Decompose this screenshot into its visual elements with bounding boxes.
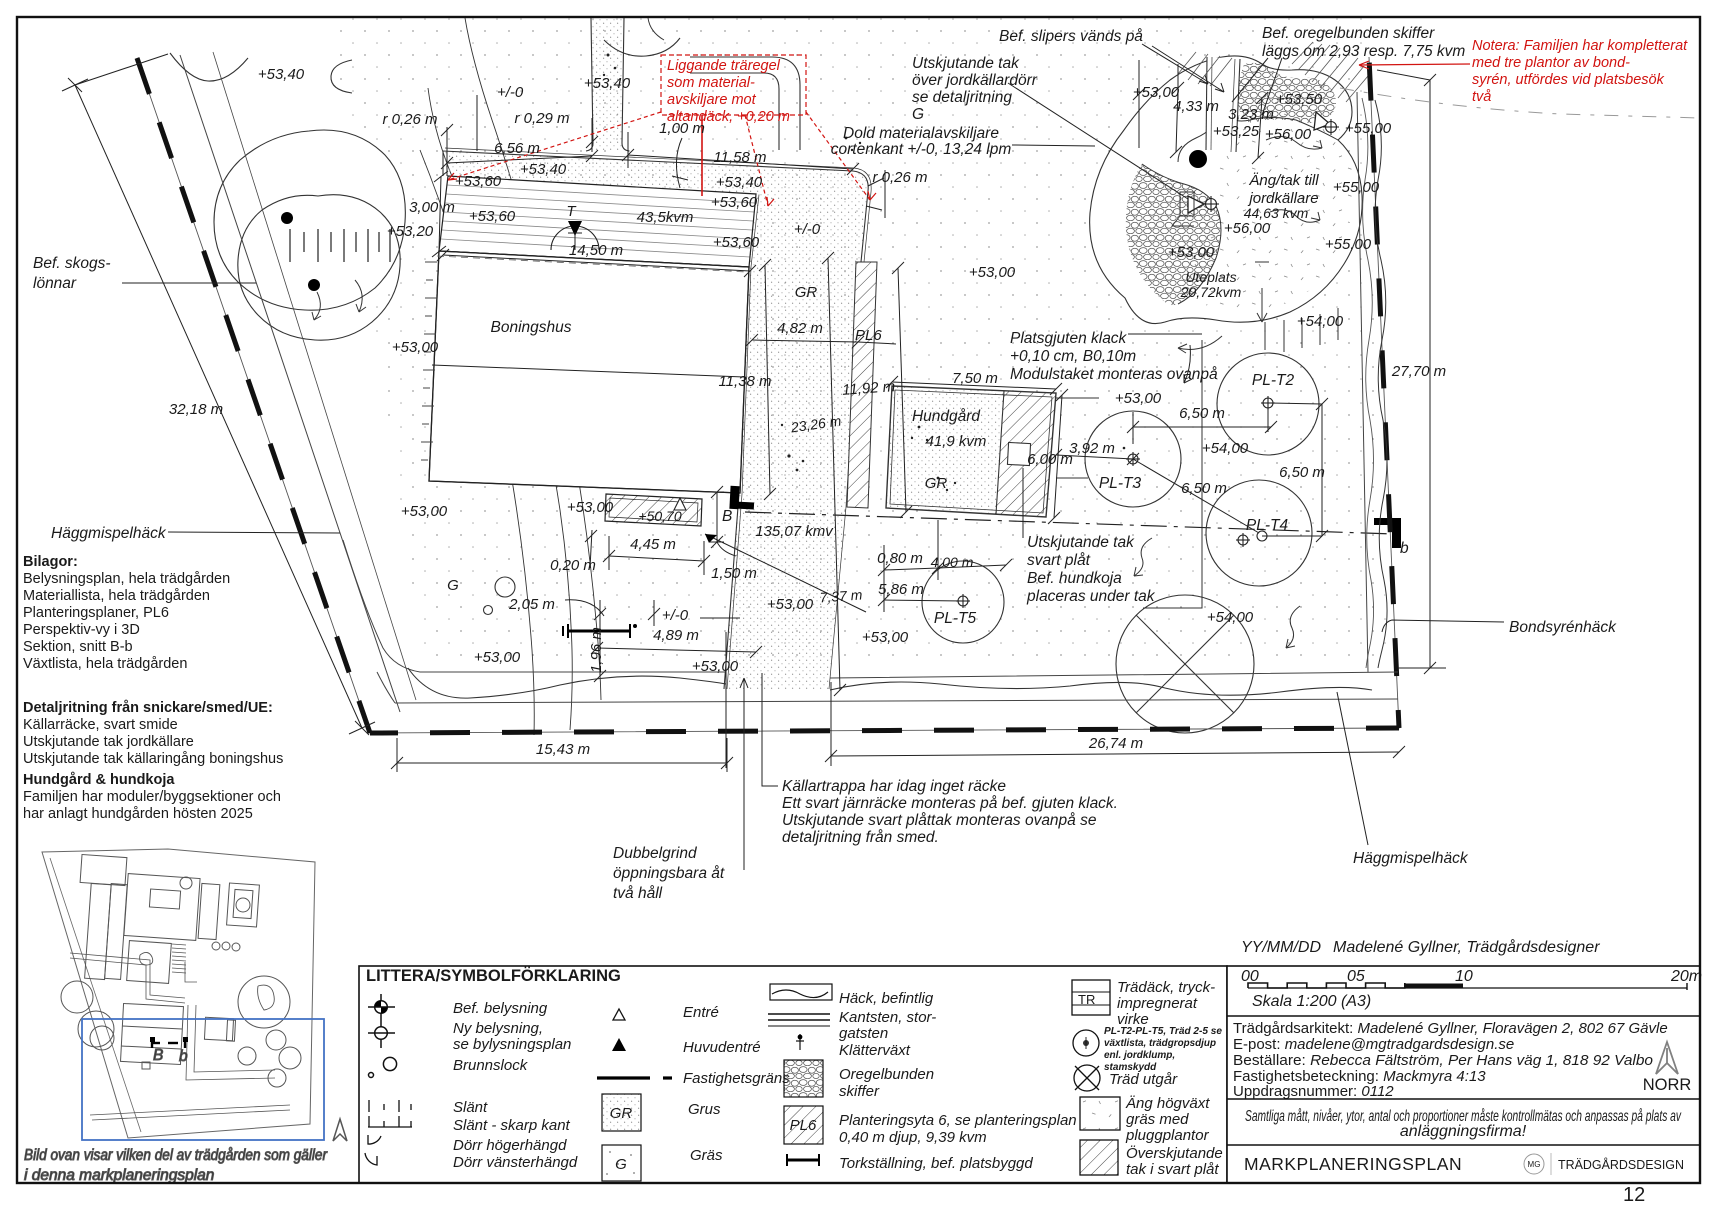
- property boundary thick dashes: right: [1369, 57, 1399, 728]
- svg-text:Klätterväxt: Klätterväxt: [839, 1042, 911, 1059]
- upper stone band: [1238, 63, 1336, 123]
- svg-text:två: två: [1472, 89, 1491, 105]
- svg-text:+53,00: +53,00: [969, 264, 1016, 281]
- svg-text:Hundgård: Hundgård: [912, 408, 981, 425]
- svg-text:4,00 m: 4,00 m: [931, 554, 974, 570]
- r 0,26 m right corner ticks: [868, 178, 884, 186]
- svg-text:7,37 m: 7,37 m: [819, 587, 863, 606]
- col4: [1072, 980, 1120, 1175]
- svg-text:Bild ovan visar vilken del av: Bild ovan visar vilken del av trädgården…: [24, 1147, 328, 1164]
- blue focus rectangle: [82, 1019, 324, 1140]
- svg-text:2,05 m: 2,05 m: [508, 596, 555, 613]
- wavy arrow right lawn: [1286, 606, 1300, 648]
- svg-text:Källartrappa har idag inget rä: Källartrappa har idag inget räcke: [782, 778, 1006, 795]
- svg-text:Träd utgår: Träd utgår: [1109, 1071, 1178, 1088]
- leader platsgjuten klack: [1128, 333, 1202, 335]
- svg-text:+53,00: +53,00: [401, 503, 448, 520]
- svg-text:+53,20: +53,20: [387, 223, 434, 240]
- svg-text:32,18 m: 32,18 m: [169, 401, 223, 418]
- svg-text:MG: MG: [1528, 1160, 1541, 1169]
- svg-text:PL-T2: PL-T2: [1252, 372, 1295, 389]
- svg-text:Bef. slipers vänds på: Bef. slipers vänds på: [999, 28, 1143, 45]
- leader utskjutande tak over jordkallardorr: [1008, 83, 1188, 199]
- svg-text:Slänt: Slänt: [453, 1099, 488, 1116]
- svg-text:G: G: [447, 577, 459, 594]
- door symbols: [368, 1135, 381, 1144]
- small trees bottom: [238, 1047, 256, 1065]
- svg-text:Trädgårdsarkitekt: Madelené Gy: Trädgårdsarkitekt: Madelené Gyllner, Flo…: [1233, 1020, 1668, 1037]
- scattered pebbles: [603, 54, 1133, 492]
- deck boards: [441, 185, 755, 257]
- slope ticks below mound: [1265, 308, 1338, 352]
- stair hatch strip: [172, 944, 186, 973]
- svg-text:två håll: två håll: [613, 885, 663, 902]
- svg-text:r 0,26 m: r 0,26 m: [872, 169, 927, 186]
- svg-text:Materiallista, hela trädgården: Materiallista, hela trädgården: [23, 588, 210, 604]
- svg-text:avskiljare mot: avskiljare mot: [667, 92, 757, 108]
- hedge lines parallel to left boundary: [180, 55, 400, 712]
- cellar entrance canopy (hatched): [605, 494, 702, 526]
- entre triangle at jordkallare door: [1188, 196, 1204, 213]
- svg-text:TR: TR: [1078, 992, 1095, 1007]
- leader kallartrappa: [762, 673, 778, 786]
- svg-text:6,00 m: 6,00 m: [1027, 451, 1073, 468]
- svg-text:E-post: madelene@mgtradgardsde: E-post: madelene@mgtradgardsdesign.se: [1233, 1036, 1514, 1053]
- brunnslock: [383, 1057, 396, 1070]
- svg-text:Bef. belysning: Bef. belysning: [453, 1000, 548, 1017]
- svg-text:läggs om 2,93 resp. 7,75 kvm: läggs om 2,93 resp. 7,75 kvm: [1262, 43, 1465, 60]
- dim 4,45 m below cellar: [609, 556, 704, 561]
- svg-text:enl. jordklump,: enl. jordklump,: [1104, 1050, 1175, 1061]
- svg-text:lönnar: lönnar: [33, 275, 77, 292]
- r 0,26 m tick top-left: [441, 124, 453, 136]
- canopy arcs at top edge: [170, 53, 248, 81]
- entrance triangle at cellar: [674, 498, 686, 510]
- svg-text:anläggningsfirma!: anläggningsfirma!: [1400, 1123, 1527, 1140]
- svg-text:6,50 m: 6,50 m: [1279, 464, 1325, 481]
- svg-text:Häck, befintlig: Häck, befintlig: [839, 990, 934, 1007]
- svg-text:20m: 20m: [1670, 968, 1702, 985]
- svg-text:se bylysningsplan: se bylysningsplan: [453, 1036, 571, 1053]
- svg-text:Bef. oregelbunden skiffer: Bef. oregelbunden skiffer: [1262, 25, 1435, 42]
- gravel path inset: [186, 1005, 275, 1080]
- lighting symbol at door: [1203, 196, 1219, 212]
- svg-text:+53,00: +53,00: [567, 499, 614, 516]
- svg-text:Dörr högerhängd: Dörr högerhängd: [453, 1137, 567, 1154]
- dim 3,23 m: [1258, 98, 1262, 158]
- svg-text:43,5kvm: 43,5kvm: [637, 209, 694, 226]
- curved arrow bottom left of mound: [1178, 336, 1222, 350]
- svg-text:öppningsbara åt: öppningsbara åt: [613, 865, 725, 882]
- leader haggmispelhack bottom right: [1337, 692, 1368, 845]
- svg-text:0,80 m: 0,80 m: [877, 550, 923, 567]
- svg-text:Belysningsplan, hela trädgårde: Belysningsplan, hela trädgården: [23, 571, 230, 587]
- svg-text:+53,60: +53,60: [455, 173, 502, 190]
- svg-text:som material-: som material-: [667, 75, 755, 91]
- buildings upper: [80, 854, 127, 885]
- svg-text:detaljritning från smed.: detaljritning från smed.: [782, 829, 939, 846]
- jordkallare mound white base: [1090, 56, 1363, 324]
- svg-text:0,20 m: 0,20 m: [550, 557, 596, 574]
- svg-text:över jordkällardörr: över jordkällardörr: [912, 72, 1038, 89]
- lower house: [121, 1003, 184, 1064]
- svg-text:Bef. skogs-: Bef. skogs-: [33, 255, 111, 272]
- svg-text:+56,00: +56,00: [1224, 220, 1271, 237]
- dims at PL-T5: 0,80 / 4,00 / 5,86: [884, 568, 938, 570]
- dim 7,50 m hundgard top: [892, 382, 1056, 389]
- diagonal leader to cellar stairs: [705, 534, 866, 612]
- title block frame: [1227, 966, 1700, 1183]
- red annotations: [448, 55, 1470, 206]
- svg-text:Entré: Entré: [683, 1004, 719, 1021]
- svg-text:se detaljritning: se detaljritning: [912, 89, 1012, 106]
- svg-text:Planteringsyta 6, se planterin: Planteringsyta 6, se planteringsplan: [839, 1112, 1077, 1129]
- slope tick row through canopy: [290, 229, 390, 262]
- platsgjuten klack edge: [1143, 340, 1202, 608]
- leader dold materialavskiljare: [1012, 145, 1095, 146]
- svg-text:skiffer: skiffer: [839, 1083, 880, 1100]
- dim 11,92 m vertical: [898, 268, 906, 512]
- leader haggmispelhack left: [168, 532, 340, 533]
- leader bef slipers: [1142, 44, 1208, 84]
- svg-text:Dörr vänsterhängd: Dörr vänsterhängd: [453, 1154, 578, 1171]
- svg-text:gatsten: gatsten: [839, 1025, 888, 1042]
- svg-text:Trädäck, tryck-: Trädäck, tryck-: [1117, 979, 1215, 996]
- svg-text:Beställare: Rebecca Fältström,: Beställare: Rebecca Fältström, Per Hans …: [1233, 1052, 1653, 1069]
- svg-text:pluggplantor: pluggplantor: [1125, 1127, 1210, 1144]
- svg-text:Bef. hundkoja: Bef. hundkoja: [1027, 570, 1122, 587]
- svg-text:G: G: [912, 106, 924, 123]
- svg-text:Platsgjuten klack: Platsgjuten klack: [1010, 330, 1128, 347]
- existing forest maples (bef. skogslonnar) canopies top-left: [214, 130, 405, 310]
- house Boningshus: [429, 251, 749, 493]
- leader bondsyrenhack: [1382, 620, 1504, 632]
- svg-text:i denna markplaneringsplan: i denna markplaneringsplan: [24, 1167, 214, 1184]
- svg-text:6,50 m: 6,50 m: [1181, 480, 1227, 497]
- walkway left end: [442, 151, 444, 176]
- dim 6,50 m T3-T2 horizontal: [1133, 426, 1271, 428]
- svg-text:Dubbelgrind: Dubbelgrind: [613, 845, 698, 862]
- svg-text:+53,40: +53,40: [520, 161, 567, 178]
- svg-text:Liggande träregel: Liggande träregel: [667, 58, 781, 74]
- hundgard enclosure: [886, 386, 1056, 517]
- right hedge fence line: [1357, 92, 1368, 672]
- svg-text:3,92 m: 3,92 m: [1069, 440, 1115, 457]
- faint dashed line exiting top right: [1340, 88, 1700, 118]
- main entrance arc + marker on deck: [551, 226, 599, 250]
- svg-text:r 0,26 m: r 0,26 m: [382, 111, 437, 128]
- svg-text:Äng högväxt: Äng högväxt: [1125, 1095, 1210, 1112]
- Bondsyren hedge wavy vertical: [1375, 100, 1387, 668]
- svg-text:Perspektiv-vy i 3D: Perspektiv-vy i 3D: [23, 622, 140, 638]
- garden sparse stipple field: [330, 18, 1388, 665]
- svg-text:Växtlista, hela trädgården: Växtlista, hela trädgården: [23, 656, 187, 672]
- svg-text:+54,00: +54,00: [1202, 440, 1249, 457]
- drooping branch arrows: [314, 292, 320, 320]
- svg-text:26,74 m: 26,74 m: [1088, 735, 1143, 752]
- dim 11,58 m walkway right: [628, 155, 853, 169]
- legend box: [359, 966, 1227, 1183]
- dim 4,82 m house to PL6: [752, 340, 858, 342]
- svg-text:+53,40: +53,40: [716, 174, 763, 191]
- +/-0 leader top-left: [476, 95, 478, 151]
- svg-text:Utskjutande tak: Utskjutande tak: [1027, 534, 1135, 551]
- svg-text:14,50 m: 14,50 m: [569, 242, 623, 259]
- svg-text:PL-T2-PL-T5, Träd 2-5 se: PL-T2-PL-T5, Träd 2-5 se: [1104, 1026, 1222, 1037]
- dim 3,00 m deck left: [439, 176, 441, 251]
- svg-text:+50,70: +50,70: [638, 508, 681, 524]
- slipers path vertical: [1206, 57, 1240, 152]
- svg-text:PL-T5: PL-T5: [934, 610, 977, 627]
- svg-text:5,86 m: 5,86 m: [878, 581, 924, 598]
- svg-text:4,89 m: 4,89 m: [653, 627, 699, 644]
- svg-text:har anlagt hundgården hösten 2: har anlagt hundgården hösten 2025: [23, 806, 253, 822]
- svg-text:PL6: PL6: [855, 327, 882, 344]
- svg-text:27,70 m: 27,70 m: [1391, 363, 1446, 380]
- section marker b (black flag): [1374, 518, 1401, 548]
- dim 4,33 m slipers: [1176, 88, 1178, 152]
- organic curves in left strip: [428, 88, 572, 730]
- svg-text:Boningshus: Boningshus: [490, 319, 571, 336]
- svg-text:impregnerat: impregnerat: [1117, 995, 1198, 1012]
- svg-text:Fastighetsgräns: Fastighetsgräns: [683, 1070, 790, 1087]
- hook path top right of deck: [690, 57, 800, 150]
- svg-text:Ett svart järnräcke monteras p: Ett svart järnräcke monteras på bef. gju…: [782, 795, 1118, 812]
- PL6 planting strip: [847, 262, 877, 508]
- svg-text:+53,00: +53,00: [692, 658, 739, 675]
- walkway and gravel strip GR (dense gravel fill): [443, 151, 868, 689]
- svg-text:Bondsyrénhäck: Bondsyrénhäck: [1509, 619, 1617, 636]
- middle rooms: [127, 941, 172, 984]
- svg-text:gräs med: gräs med: [1126, 1111, 1189, 1128]
- trees circles: [61, 981, 93, 1013]
- svg-text:44,63 kvm: 44,63 kvm: [1244, 205, 1309, 221]
- property boundary thick dashes: bottom: [370, 728, 1399, 733]
- svg-text:+53,60: +53,60: [711, 194, 758, 211]
- wavy arrows in meadow: [1266, 136, 1322, 149]
- svg-text:B: B: [153, 1047, 163, 1064]
- svg-text:7,50 m: 7,50 m: [952, 370, 998, 387]
- dim 14,50 m deck bottom: [443, 255, 750, 271]
- svg-text:1,50 m: 1,50 m: [711, 565, 757, 582]
- dim 26,74 m: [831, 752, 1399, 756]
- brunnslock circles lawn: [495, 577, 515, 597]
- svg-text:+56,00: +56,00: [1265, 126, 1312, 143]
- svg-text:Familjen har moduler/byggsekti: Familjen har moduler/byggsektioner och: [23, 789, 281, 805]
- svg-text:05: 05: [1347, 968, 1365, 985]
- dim 6,00 m hundgard right: [1054, 395, 1062, 518]
- dim 3,92 m PL-T3 left: [1056, 455, 1133, 459]
- svg-text:6,50 m: 6,50 m: [1179, 405, 1225, 422]
- north arrow: [1656, 1042, 1678, 1074]
- svg-text:+55,00: +55,00: [1325, 236, 1372, 253]
- svg-text:41,9 kvm: 41,9 kvm: [926, 433, 987, 450]
- section line B-b (dash-dot): [745, 512, 1393, 534]
- svg-text:+53,40: +53,40: [258, 66, 305, 83]
- svg-text:Uppdragsnummer: 0112: Uppdragsnummer: 0112: [1233, 1083, 1394, 1100]
- leader bef skogslonnar: [122, 282, 256, 284]
- svg-text:+/-0: +/-0: [497, 84, 524, 101]
- svg-text:+0,10 cm, B0,10m: +0,10 cm, B0,10m: [1010, 348, 1136, 365]
- svg-text:+53,25: +53,25: [1213, 123, 1260, 140]
- trunk dots: [281, 212, 293, 224]
- svg-text:12: 12: [1623, 1184, 1645, 1206]
- svg-text:NORR: NORR: [1643, 1076, 1692, 1094]
- svg-text:Utskjutande tak: Utskjutande tak: [912, 55, 1020, 72]
- svg-text:3,00 m: 3,00 m: [409, 199, 455, 216]
- bottom hedge lines inset: [90, 1105, 290, 1115]
- svg-text:Slänt - skarp kant: Slänt - skarp kant: [453, 1117, 571, 1134]
- property outline: [42, 849, 315, 1138]
- ny belysning: [375, 1027, 388, 1040]
- north gravel strip (vertical path at top): [591, 18, 624, 150]
- svg-text:+54,00: +54,00: [1207, 609, 1254, 626]
- svg-text:med tre plantor av bond-: med tre plantor av bond-: [1472, 55, 1630, 71]
- dim 1,96 m vertical: [599, 626, 601, 676]
- svg-text:+55,00: +55,00: [1333, 179, 1380, 196]
- svg-text:20,72kvm: 20,72kvm: [1180, 284, 1242, 300]
- svg-text:Utskjutande tak källaringång b: Utskjutande tak källaringång boningshus: [23, 751, 283, 767]
- svg-text:Källarräcke, svart smide: Källarräcke, svart smide: [23, 717, 178, 733]
- property line thin continuous: [137, 57, 1399, 733]
- svg-text:+53,00: +53,00: [1168, 244, 1215, 261]
- svg-text:syrén, utfördes vid platsbesök: syrén, utfördes vid platsbesök: [1472, 72, 1665, 88]
- inset north arrow: [333, 1119, 347, 1141]
- svg-text:10: 10: [1455, 968, 1473, 985]
- svg-text:Madelené Gyllner, Trädgårdsdes: Madelené Gyllner, Trädgårdsdesigner: [1333, 938, 1600, 956]
- svg-text:+53,00: +53,00: [1115, 390, 1162, 407]
- svg-text:GR: GR: [610, 1105, 633, 1122]
- svg-text:B: B: [722, 508, 732, 525]
- gravel right edge below PL6: [829, 262, 861, 689]
- klattervaxt glyph: [799, 1034, 801, 1050]
- svg-text:cortenkant +/-0, 13,24 lpm: cortenkant +/-0, 13,24 lpm: [831, 141, 1012, 158]
- lawn left edge curving to bottom: [343, 540, 726, 672]
- col2: [613, 1009, 625, 1020]
- red box text: [667, 58, 790, 125]
- dim 23,26 m long vertical: [828, 258, 840, 690]
- svg-text:Häggmispelhäck: Häggmispelhäck: [51, 525, 167, 542]
- uteplats stone area: [1126, 164, 1221, 305]
- svg-text:+53,00: +53,00: [392, 339, 439, 356]
- +/-0 tick line: [700, 617, 740, 619]
- svg-text:PL6: PL6: [790, 1117, 817, 1134]
- svg-text:PL-T3: PL-T3: [1099, 475, 1142, 492]
- leader bef hundkoja: [1022, 468, 1024, 538]
- slope ticks along house left edge: [421, 262, 437, 460]
- svg-text:4,45 m: 4,45 m: [630, 536, 676, 553]
- svg-text:Sektion, snitt B-b: Sektion, snitt B-b: [23, 639, 133, 655]
- deck T (tradack) white under: [439, 176, 756, 267]
- bottom hedge bottom line: [395, 699, 1398, 703]
- svg-text:Hundgård & hundkoja: Hundgård & hundkoja: [23, 772, 175, 788]
- inner meadow contour (56,00 level): [1224, 112, 1338, 140]
- svg-text:+55,00: +55,00: [1345, 120, 1392, 137]
- svg-text:tak i svart plåt: tak i svart plåt: [1126, 1161, 1219, 1178]
- svg-text:Oregelbunden: Oregelbunden: [839, 1066, 934, 1083]
- house hidden wall dashed: [437, 256, 747, 272]
- dim 6,50 m T2 vertical: [1321, 404, 1323, 536]
- meadow texture: [1180, 84, 1354, 311]
- dim 4,89 m: [597, 648, 756, 652]
- svg-text:Bilagor:: Bilagor:: [23, 554, 78, 570]
- svg-text:3,23 m: 3,23 m: [1228, 106, 1274, 123]
- svg-text:Detaljritning från snickare/sm: Detaljritning från snickare/smed/UE:: [23, 700, 273, 716]
- bottom hedge wavy: [408, 668, 726, 698]
- svg-text:GR: GR: [795, 284, 818, 301]
- arrow down at mound bottom: [1261, 288, 1263, 322]
- svg-text:+53,60: +53,60: [713, 234, 760, 251]
- section marker B (black flag): [729, 486, 754, 510]
- mound outline: [1090, 56, 1363, 324]
- svg-text:+53,40: +53,40: [584, 75, 631, 92]
- col3: [768, 984, 832, 1144]
- svg-text:Modulstaket monteras ovanpå: Modulstaket monteras ovanpå: [1010, 366, 1218, 383]
- property boundary thick dashes: left: [137, 58, 370, 733]
- svg-text:+53,00: +53,00: [767, 596, 814, 613]
- entre triangle at mound top: [1314, 112, 1330, 130]
- leader dubbelgrind up arrow: [743, 678, 745, 870]
- tree removed (crossed): [1116, 595, 1254, 733]
- dim 11,38 m house right vertical: [765, 265, 770, 494]
- tree center symbols: [956, 396, 1275, 608]
- dim 6,50 m T3-T4 diagonal: [1133, 459, 1259, 533]
- svg-text:0,40 m djup, 9,39 kvm: 0,40 m djup, 9,39 kvm: [839, 1129, 987, 1146]
- hundgard inset: [204, 1017, 233, 1040]
- svg-text:Gräs: Gräs: [690, 1147, 723, 1164]
- 0,20 m tick: [590, 530, 592, 568]
- svg-text:4,82 m: 4,82 m: [777, 320, 823, 337]
- dim 32,18 m along left boundary: [75, 85, 362, 728]
- svg-text:Uteplats: Uteplats: [1185, 269, 1236, 285]
- svg-text:+53,50: +53,50: [1276, 91, 1323, 108]
- svg-text:6,56 m: 6,56 m: [494, 140, 540, 157]
- big trunk dot: [1189, 150, 1207, 168]
- svg-text:Utskjutande tak jordkällare: Utskjutande tak jordkällare: [23, 734, 194, 750]
- svg-text:b: b: [179, 1048, 188, 1065]
- scale bar: [1241, 968, 1702, 1010]
- MG logo: [1524, 1154, 1544, 1174]
- svg-text:svart plåt: svart plåt: [1027, 552, 1091, 569]
- svg-text:+53,00: +53,00: [474, 649, 521, 666]
- bottom hedge: top line: [420, 672, 1398, 678]
- inner contour between stone and meadow: [1142, 164, 1221, 304]
- r 0,29 m tick: [586, 136, 598, 148]
- dim 6,56 m walkway left: [447, 156, 592, 163]
- svg-text:PL-T4: PL-T4: [1246, 517, 1289, 534]
- svg-text:Notera: Familjen har komplette: Notera: Familjen har kompletterat: [1472, 38, 1688, 54]
- svg-text:b: b: [1400, 540, 1409, 557]
- svg-text:1,96 m: 1,96 m: [588, 627, 605, 673]
- walkway top edge: [443, 151, 868, 262]
- svg-text:+54,00: +54,00: [1297, 313, 1344, 330]
- svg-text:11,58 m: 11,58 m: [713, 149, 766, 166]
- svg-text:135,07 kmv: 135,07 kmv: [755, 523, 834, 540]
- leader bef oregelbunden skiffer: [1232, 58, 1268, 102]
- svg-text:TRÄDGÅRDSDESIGN: TRÄDGÅRDSDESIGN: [1558, 1157, 1684, 1172]
- house mid line: [432, 365, 744, 377]
- svg-text:+53,60: +53,60: [469, 208, 516, 225]
- 2,05 m leader arc: [565, 600, 604, 616]
- svg-text:Dold materialavskiljare: Dold materialavskiljare: [843, 125, 999, 142]
- svg-text:Ny belysning,: Ny belysning,: [453, 1020, 543, 1037]
- svg-text:Skala 1:200 (A3): Skala 1:200 (A3): [1252, 993, 1371, 1010]
- wavy arrow below hundgard: [1134, 538, 1152, 576]
- lighting symbol at mound top: [1323, 119, 1339, 135]
- svg-text:GR: GR: [925, 475, 948, 492]
- svg-text:Utskjutande svart plåttak mont: Utskjutande svart plåttak monteras ovanp…: [782, 812, 1097, 829]
- svg-text:YY/MM/DD: YY/MM/DD: [1241, 939, 1321, 956]
